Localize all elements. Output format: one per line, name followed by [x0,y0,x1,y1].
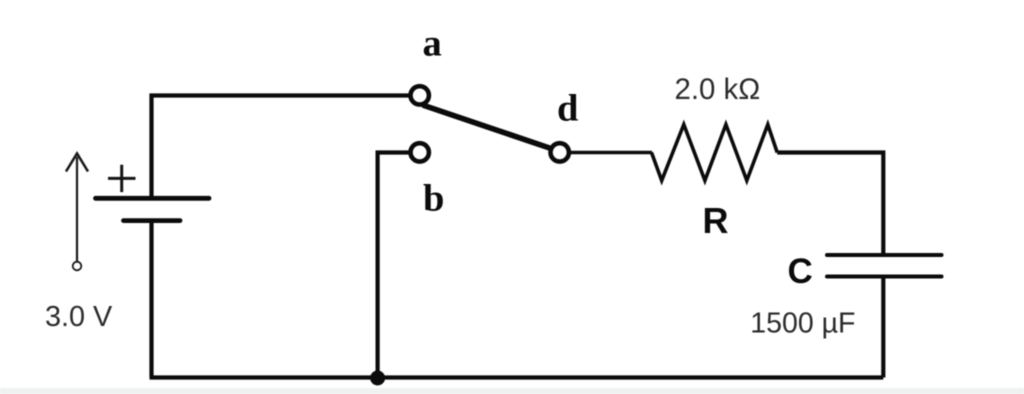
bottom page strip [0,388,1024,394]
svg-text:C: C [788,252,813,291]
wire: switch terminal b to bottom rail [378,153,409,378]
wire: resistor to capacitor via top-right corner [777,153,883,254]
svg-text:a: a [423,23,442,65]
svg-text:3.0 V: 3.0 V [45,301,113,333]
wire: terminal d to resistor R [571,151,652,155]
battery V1 long positive plate [96,196,210,201]
switch common terminal d contact [551,143,569,161]
battery V1 short negative plate [124,218,181,223]
battery V1 [96,198,210,220]
bottom rail wire [150,375,884,379]
capacitor C top plate [827,253,942,257]
switch terminal b contact [411,143,429,161]
battery plus polarity mark [108,165,136,192]
svg-text:R: R [703,200,729,241]
svg-text:2.0 kΩ: 2.0 kΩ [675,73,761,106]
capacitor C bottom plate [827,275,942,279]
voltage annotation arrow [66,154,88,271]
wire: capacitor bottom plate to bottom rail [881,277,885,378]
svg-text:1500 µF: 1500 µF [750,307,855,339]
wire: battery + up and across to switch terminal a [152,96,410,198]
svg-text:b: b [423,178,444,220]
junction node on bottom rail [370,371,385,386]
switch SW1 lever from a toward d [424,106,551,149]
resistor R zigzag body [652,125,778,181]
svg-text:d: d [557,88,578,130]
switch terminal a contact [411,86,429,104]
wire: battery - down to bottom rail [149,221,153,378]
